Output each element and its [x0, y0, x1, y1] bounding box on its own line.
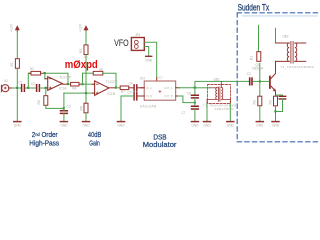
svg-text:IN_B: IN_B — [146, 94, 152, 98]
ground GND (R9) — [256, 122, 264, 128]
svg-text:R2: R2 — [30, 67, 34, 71]
wire JP1 pin2 to GND — [144, 47, 148, 56]
wire mic node down to GND — [16, 88, 18, 121]
resistor R9 vertical — [253, 96, 262, 106]
ground GND (R5) — [82, 122, 90, 128]
svg-text:VFO: VFO — [114, 37, 129, 48]
node +input junction — [45, 87, 47, 89]
svg-text:Sudden Tx: Sudden Tx — [238, 3, 270, 13]
transistor Q1 — [270, 61, 276, 96]
svg-text:GND: GND — [82, 124, 90, 128]
supply feed R8 (base bias from top) — [259, 25, 260, 81]
svg-text:GND: GND — [191, 124, 199, 128]
wire U$2 right gnd — [229, 104, 231, 122]
wire R4 node to IC1B +input — [82, 83, 95, 85]
svg-text:GND: GND — [60, 124, 68, 128]
supply +12V arrow P2 — [78, 23, 87, 32]
IC2 top pin stub — [156, 78, 158, 81]
resistor R2 (feedback, horizontal) — [29, 67, 44, 75]
transformer U$2 windings — [207, 81, 230, 103]
pin stubs op-amp 2 inputs — [93, 84, 95, 93]
svg-text:C7: C7 — [182, 111, 186, 115]
supply +12V arrow P1 — [10, 23, 20, 32]
op-amp IC1B — [95, 80, 119, 96]
node B junction — [27, 87, 29, 89]
node C6/C7 mid — [194, 102, 196, 104]
svg-text:R2: R2 — [253, 100, 257, 104]
supply feed transformer primary — [275, 28, 277, 43]
wire node3 to R7 — [116, 87, 120, 89]
wire base node to base / R9 — [260, 80, 269, 82]
capacitor C4 (series into IN A) — [129, 82, 145, 91]
resistor R2v below op-amp 1 — [37, 96, 48, 106]
svg-text:C2: C2 — [31, 82, 35, 86]
node Q1 base — [259, 80, 261, 82]
wire JP1 pin1 to IC2 top — [144, 42, 156, 78]
capacitor C5 (series into IN B) — [128, 91, 145, 100]
wire C9 to base node — [253, 80, 260, 82]
svg-text:R2: R2 — [37, 100, 41, 104]
wire U$2 input stub — [196, 87, 210, 89]
wire +12V P2 down to R3 — [85, 32, 87, 45]
svg-text:OUT_A: OUT_A — [164, 86, 173, 90]
capacitor C9 (series, Sudden input) — [247, 72, 252, 85]
resistor R8 vertical — [250, 52, 261, 62]
wire R9 to GND — [259, 106, 261, 121]
wire OUT A to node4 — [179, 87, 197, 89]
ground GND (U$2 left) — [203, 122, 211, 128]
svg-text:R3: R3 — [79, 49, 83, 53]
wire R1 to mic node — [16, 68, 18, 88]
svg-text:GND: GND — [227, 124, 235, 128]
node emitter junction — [274, 110, 276, 112]
svg-text:SA612AN: SA612AN — [140, 104, 157, 108]
svg-text:OUT_B: OUT_B — [164, 94, 173, 98]
ground GND (emitter) — [272, 122, 280, 128]
svg-text:R3: R3 — [269, 100, 273, 104]
transformer U$3 — [276, 42, 306, 64]
node mic junction — [16, 87, 18, 89]
svg-text:R7: R7 — [121, 90, 125, 94]
svg-text:R6: R6 — [99, 68, 103, 72]
wire output to R4 — [68, 83, 70, 85]
ground GND (U$2 right) — [227, 122, 235, 128]
node R4 right — [81, 83, 83, 85]
resistor R1 (mic bias, vertical) — [10, 59, 19, 69]
wire R2v to C3 junction — [46, 105, 64, 108]
wire feedback drop to -input node — [82, 73, 84, 84]
wire emitter node to GND — [275, 106, 277, 121]
svg-text:IN_A: IN_A — [146, 86, 152, 90]
svg-text:mØxpd: mØxpd — [65, 59, 98, 71]
svg-text:2N3904: 2N3904 — [252, 67, 263, 71]
wire C2 to +input node — [40, 87, 46, 89]
svg-text:IC1B: IC1B — [108, 92, 116, 96]
svg-text:GND: GND — [203, 124, 211, 128]
capacitor C10 (emitter bypass) — [276, 95, 286, 112]
wire node B up to R2 — [28, 73, 31, 88]
node output IC1B — [115, 87, 117, 89]
svg-text:T1_TRANSFORMER: T1_TRANSFORMER — [281, 65, 315, 69]
resistor R10 (emitter) — [269, 96, 278, 106]
svg-text:GND: GND — [117, 124, 125, 128]
svg-text:C5: C5 — [128, 91, 132, 95]
svg-text:GND: GND — [272, 124, 280, 128]
svg-text:TL072P: TL072P — [59, 75, 72, 79]
svg-text:R5: R5 — [80, 106, 84, 110]
transformer U$2 dashed box — [203, 77, 237, 111]
IC2 SA612 mixer — [140, 76, 180, 109]
node R2 right junction — [44, 72, 46, 74]
node output IC1A — [67, 83, 69, 85]
node C3 junction — [63, 107, 65, 109]
wire R3 down to R4 node — [85, 55, 87, 104]
wire feedback rail to output — [45, 73, 68, 84]
ground GND (IN B) — [117, 122, 125, 128]
svg-text:C1: C1 — [19, 81, 23, 85]
svg-text:U$2: U$2 — [214, 77, 220, 81]
resistor R4 (horizontal) — [71, 82, 82, 90]
wire U$2 left gnd — [206, 104, 208, 122]
svg-text:C2: C2 — [247, 72, 251, 76]
svg-text:C3: C3 — [67, 105, 71, 109]
wire R5 to GND — [85, 113, 87, 121]
faint rule line — [243, 15, 318, 17]
resistor R3 (bias divider top, vertical) — [79, 45, 88, 59]
resistor R6 (IC1B feedback) — [83, 68, 117, 88]
mic jack X1 — [1, 79, 13, 92]
svg-text:X1: X1 — [4, 79, 8, 83]
wire junction down to -input — [45, 73, 46, 79]
ground GND (JP1) — [145, 56, 153, 62]
wire lower tap row to IC1B -input and left to C3 node — [64, 92, 95, 94]
svg-text:C4: C4 — [129, 82, 133, 86]
resistor R7 — [120, 86, 134, 94]
svg-text:GND: GND — [145, 58, 153, 62]
svg-text:GND: GND — [256, 124, 264, 128]
node bias rail lower tap — [85, 92, 87, 94]
svg-text:R4: R4 — [72, 86, 76, 90]
wire mic to C1 — [13, 87, 21, 89]
svg-text:C6: C6 — [187, 91, 191, 95]
capacitor C6 — [187, 88, 198, 98]
ground GND (C3) — [60, 122, 68, 128]
svg-text:R1: R1 — [10, 62, 14, 66]
wire +12V to R1 top — [16, 32, 18, 59]
connector JP1 — [131, 33, 144, 51]
svg-text:JP1: JP1 — [135, 33, 141, 37]
svg-text:TL072P: TL072P — [106, 80, 119, 84]
op-amp IC1A — [48, 75, 72, 90]
wire C3 node drop — [63, 93, 65, 108]
svg-text:VCC: VCC — [157, 76, 163, 80]
svg-text:R1: R1 — [250, 56, 254, 60]
svg-text:High-Pass: High-Pass — [29, 139, 59, 148]
ground GND (C7) — [191, 122, 199, 128]
svg-text:IC2: IC2 — [140, 77, 145, 81]
wire C1 to C2 — [25, 87, 36, 89]
wire node4 riser to Sudden feed line — [195, 81, 249, 87]
wire R2 chain: +input node down through R2v — [45, 88, 47, 96]
svg-text:IC1A: IC1A — [59, 87, 67, 91]
capacitor C2 — [31, 82, 39, 91]
svg-text:GND: GND — [14, 124, 22, 128]
svg-text:+12V: +12V — [10, 23, 14, 32]
svg-text:+12V: +12V — [78, 23, 82, 32]
svg-text:U$3: U$3 — [283, 35, 289, 39]
wire IN B bias to GND — [121, 96, 134, 121]
svg-text:Gain: Gain — [89, 139, 100, 148]
Sudden Tx dashed box — [237, 13, 320, 142]
resistor R5 (bias divider bottom, vertical) — [80, 103, 88, 113]
capacitor C3 (vertical) — [61, 105, 71, 122]
svg-text:SPECTRUM: SPECTRUM — [215, 107, 235, 111]
pin stubs op-amp 1 inputs — [45, 79, 48, 88]
capacitor C7 — [182, 106, 199, 121]
wire OUT B to node5 — [179, 96, 195, 103]
ground GND (mic) — [14, 122, 22, 128]
node C6 junction top — [194, 87, 196, 89]
svg-text:Modulator: Modulator — [143, 140, 177, 149]
capacitor C1 — [19, 81, 25, 92]
